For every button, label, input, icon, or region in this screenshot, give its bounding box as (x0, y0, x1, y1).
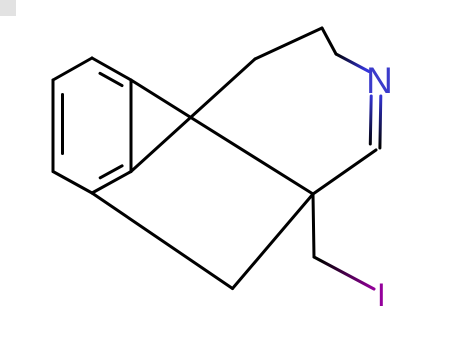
benzene LL-B (53, 172, 92, 194)
benzene UL-LL (52, 80, 55, 172)
bond C8a-C1 (255, 28, 322, 59)
svg-text:I: I (377, 277, 386, 313)
aromatic inner line (UL-LL) (61, 95, 64, 154)
double bond N=C3 inner line (369, 96, 373, 144)
bond B-W (92, 193, 233, 289)
aromatic inner line (B-LR) (100, 166, 122, 178)
watermark corner square (0, 0, 16, 16)
long bond UR-C4 (131, 80, 313, 194)
bond V1-I (black fading to purple) (314, 257, 374, 289)
benzene UR-T (92, 58, 131, 80)
bond C3-C4 (313, 150, 376, 194)
svg-text:N: N (366, 60, 393, 101)
benzene B-LR (92, 172, 131, 194)
bond C4-W (233, 194, 314, 289)
benzene ring left: T-UL (53, 58, 92, 80)
aromatic inner line (UR-T) (100, 73, 122, 85)
long bond LR-C8a (131, 59, 255, 172)
double bond N=C3 main line (378, 96, 382, 148)
benzene LR-UR (130, 80, 133, 172)
bond C4-V1 (313, 194, 314, 257)
bond P-N (fading to blue) (336, 54, 369, 72)
bond C1-P (apex segment, black) (322, 28, 336, 54)
